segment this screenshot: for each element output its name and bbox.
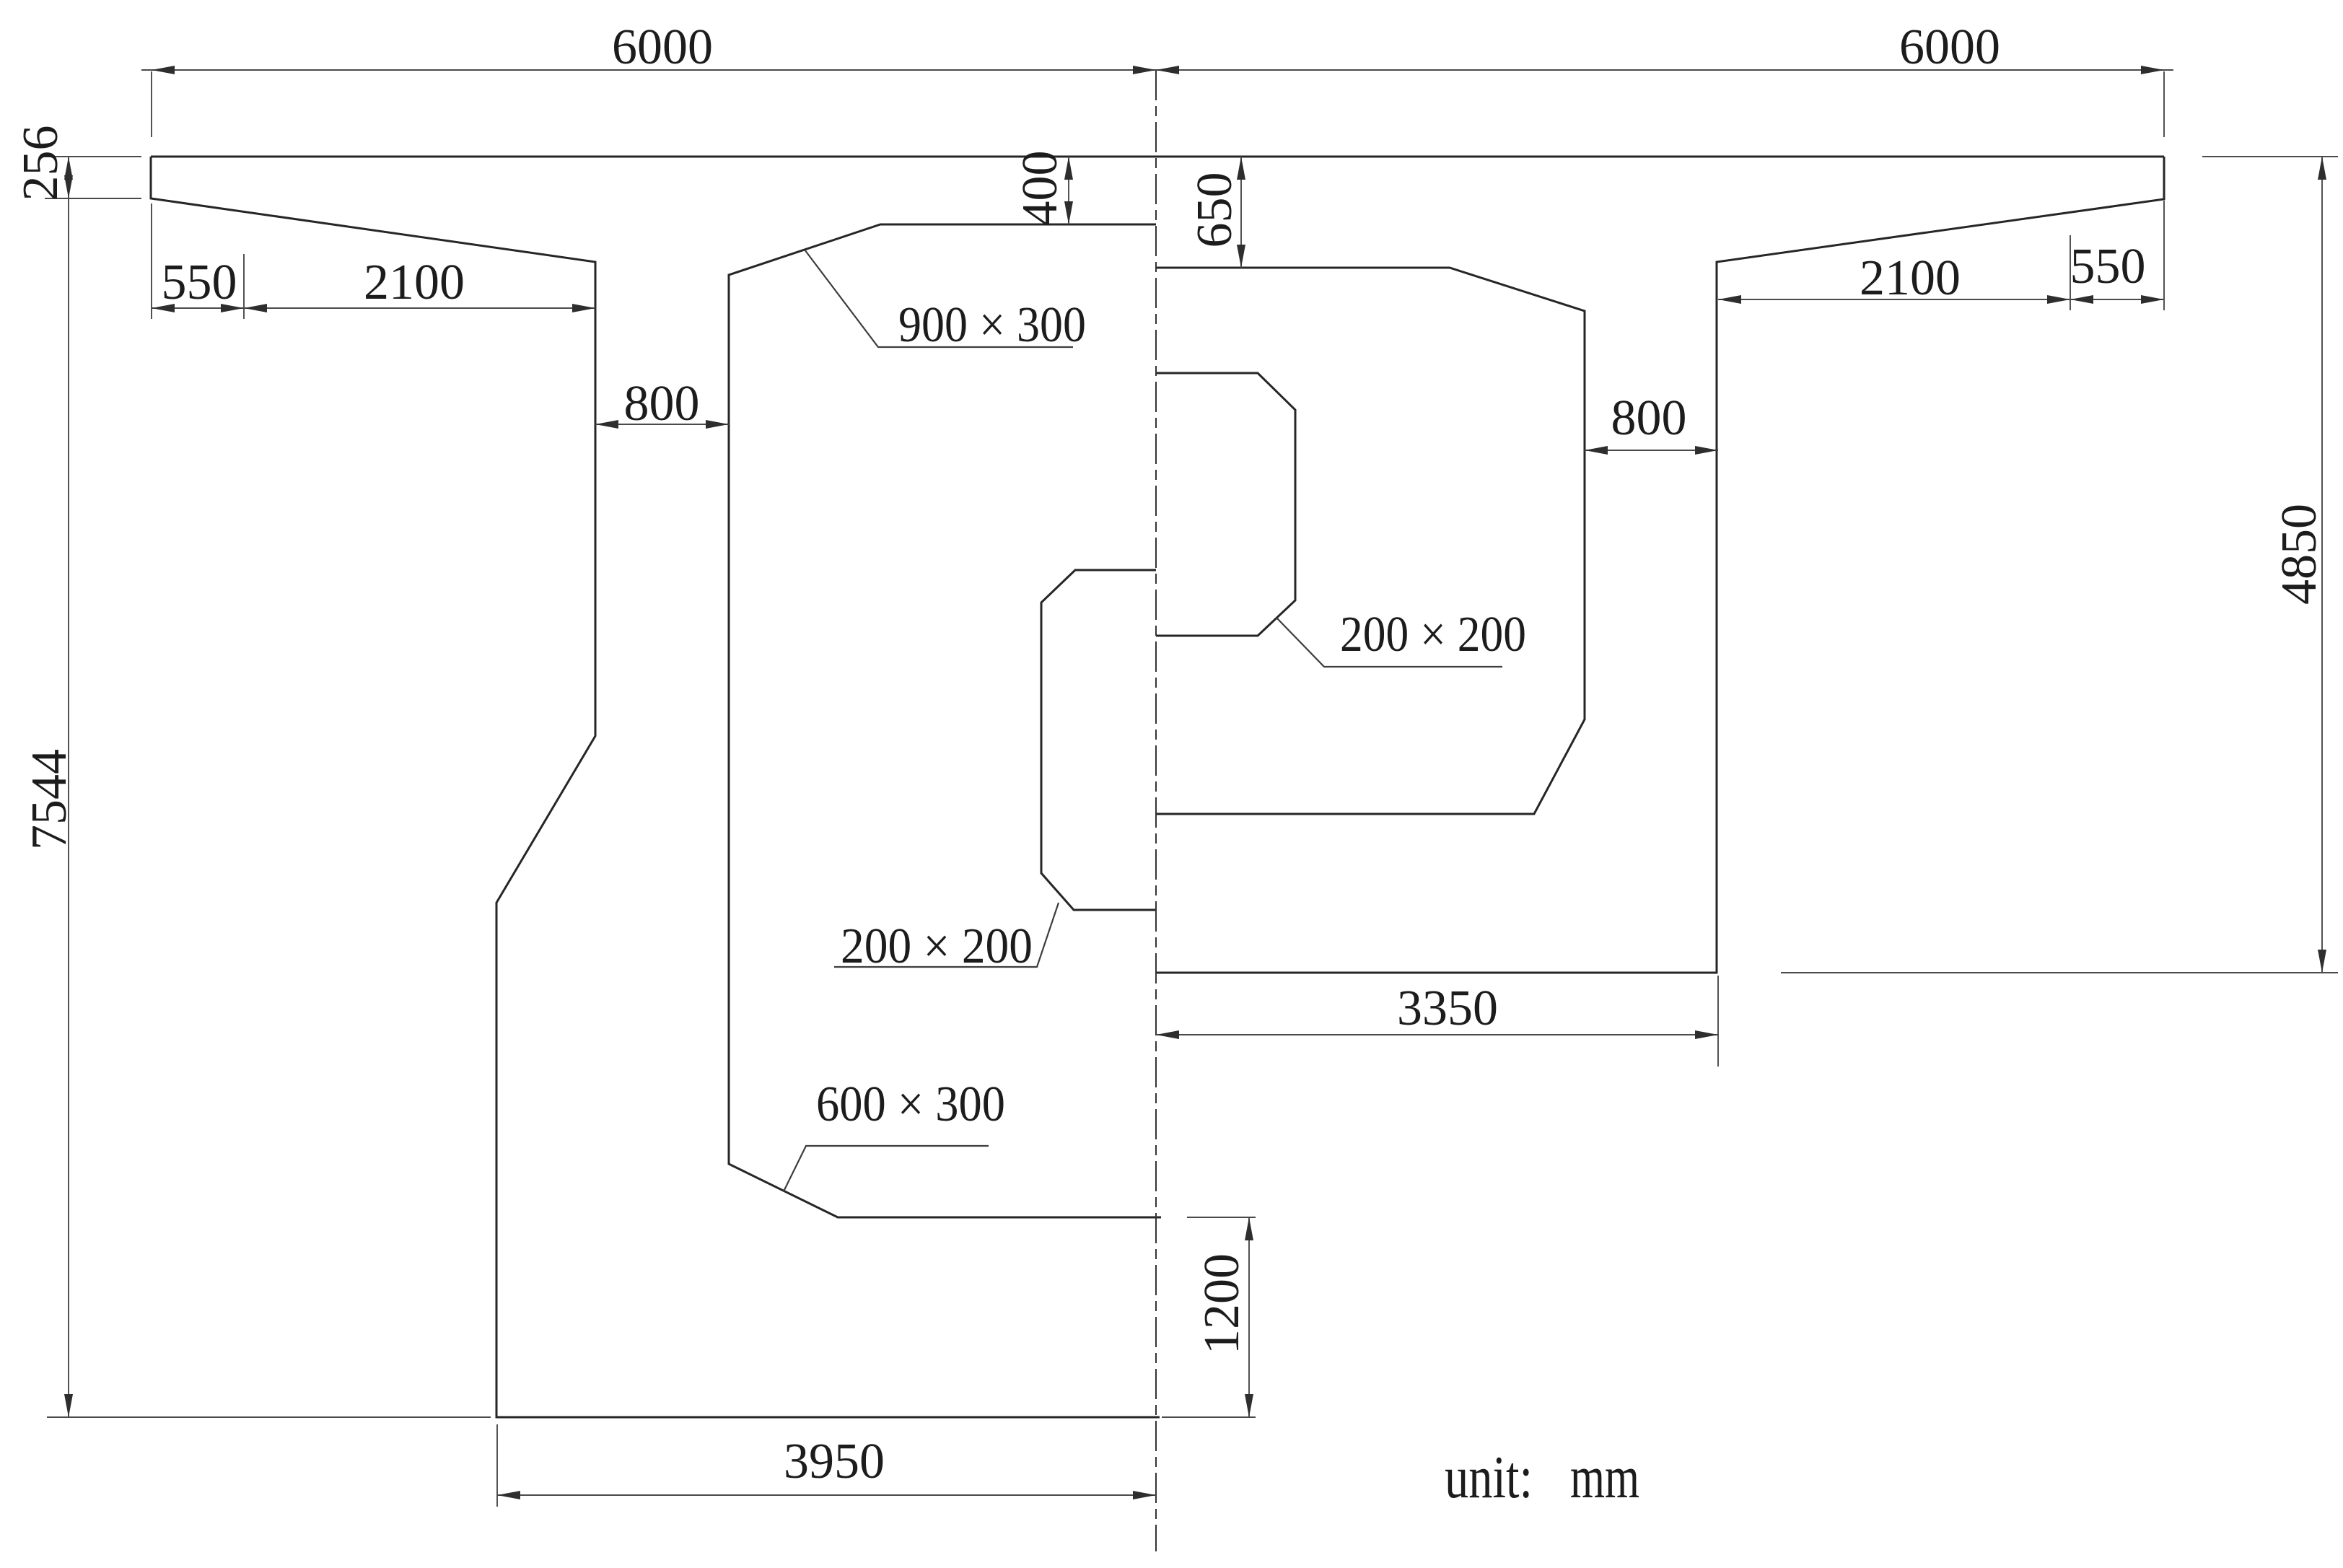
svg-text:200 × 200: 200 × 200 bbox=[841, 919, 1033, 974]
svg-text:200 × 200: 200 × 200 bbox=[1340, 607, 1526, 662]
svg-text:600 × 300: 600 × 300 bbox=[816, 1077, 1005, 1132]
svg-text:900 × 300: 900 × 300 bbox=[898, 297, 1086, 353]
svg-text:7544: 7544 bbox=[22, 749, 77, 850]
svg-text:400: 400 bbox=[1012, 151, 1068, 227]
svg-text:3950: 3950 bbox=[784, 1434, 885, 1489]
svg-text:6000: 6000 bbox=[612, 19, 713, 75]
svg-text:2100: 2100 bbox=[364, 255, 465, 310]
svg-text:mm: mm bbox=[1570, 1444, 1639, 1511]
svg-text:550: 550 bbox=[2070, 239, 2146, 294]
svg-text:550: 550 bbox=[162, 255, 237, 310]
svg-text:6000: 6000 bbox=[1899, 19, 2000, 75]
svg-text:1200: 1200 bbox=[1194, 1253, 1250, 1354]
svg-text:800: 800 bbox=[1611, 390, 1687, 446]
svg-text:unit:: unit: bbox=[1445, 1444, 1533, 1511]
svg-text:256: 256 bbox=[13, 126, 69, 201]
svg-text:3350: 3350 bbox=[1397, 981, 1498, 1036]
svg-text:4850: 4850 bbox=[2272, 504, 2327, 605]
svg-text:2100: 2100 bbox=[1860, 250, 1961, 306]
svg-text:800: 800 bbox=[624, 376, 700, 432]
svg-text:650: 650 bbox=[1187, 172, 1243, 248]
